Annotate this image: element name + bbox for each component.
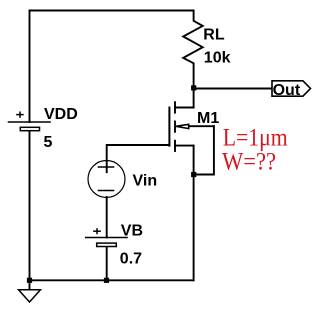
- svg-text:Vin: Vin: [133, 173, 158, 190]
- svg-text:Out: Out: [273, 82, 301, 99]
- svg-text:VB: VB: [121, 223, 143, 240]
- svg-text:0.7: 0.7: [120, 251, 142, 268]
- svg-text:VDD: VDD: [44, 106, 78, 123]
- svg-text:10k: 10k: [204, 50, 231, 67]
- svg-text:M1: M1: [197, 110, 219, 127]
- svg-text:RL: RL: [203, 26, 225, 43]
- svg-text:W=??: W=??: [222, 149, 276, 176]
- svg-text:L=1μm: L=1μm: [223, 125, 288, 152]
- svg-text:5: 5: [44, 134, 53, 151]
